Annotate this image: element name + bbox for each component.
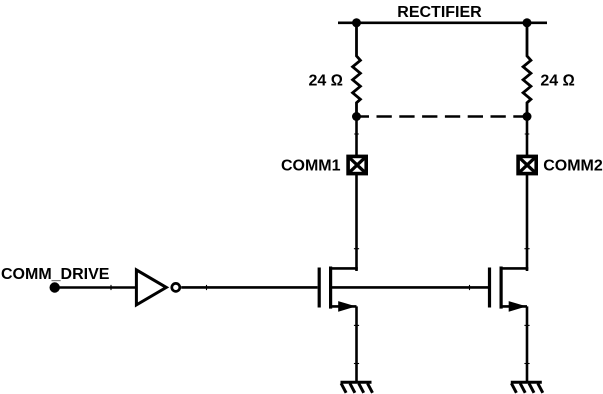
wire Q1 source down to ground <box>355 306 358 382</box>
wire dashed between resistor bottoms <box>357 115 528 118</box>
transistor Q2 NMOS right <box>490 267 528 309</box>
transistor Q1 drain stub <box>331 268 357 271</box>
transistor Q2 gate bar <box>488 268 491 308</box>
tick segment joint on Q2 drain wire <box>524 248 529 250</box>
wire COMM2 terminal down to Q2 drain <box>526 174 529 270</box>
transistor Q2 source stub <box>501 305 527 308</box>
tick segment joint on Q2 gate wire <box>469 285 471 290</box>
terminal COMM1 crossed box <box>348 156 366 173</box>
terminal COMM2 crossed box <box>518 156 536 173</box>
tick segment joint on Q2 source wire lower <box>524 363 529 365</box>
tick segment joint on Q1 source wire lower <box>354 363 359 365</box>
tick segment joint on Q1 source wire upper <box>354 324 359 326</box>
transistor Q1 source stub <box>331 305 357 308</box>
junction dot left on rectifier bus <box>352 18 361 27</box>
tick segment joint on input wire <box>110 285 112 290</box>
tick segment joint on Q2 source wire upper <box>524 324 529 326</box>
tick segment joint on gate wire <box>206 285 208 290</box>
svg-text:COMM1: COMM1 <box>281 158 341 175</box>
tick segment joint on COMM1 upper wire <box>354 133 359 135</box>
wire COMM1 terminal down to Q1 drain <box>355 174 358 270</box>
tick segment joint on Q1 drain wire <box>354 248 359 250</box>
transistor Q1 gate bar <box>318 268 321 308</box>
wire Q1 channel to Q2 gate <box>331 286 488 289</box>
wire left from dot down to COMM1 terminal <box>355 117 358 157</box>
inverter U1 output bubble <box>172 283 180 291</box>
resistor R right 24 ohm <box>523 23 531 117</box>
wire top rectifier bus <box>338 21 547 24</box>
svg-text:24 Ω: 24 Ω <box>540 73 575 90</box>
transistor Q2 drain stub <box>501 268 527 271</box>
transistor Q2 source arrow <box>509 301 527 312</box>
wire COMM_DRIVE to inverter input <box>55 286 135 289</box>
resistor R left 24 ohm <box>353 23 361 117</box>
junction dot left below resistor <box>352 112 361 121</box>
junction dot right below resistor <box>523 112 532 121</box>
svg-text:RECTIFIER: RECTIFIER <box>397 4 482 21</box>
svg-text:24 Ω: 24 Ω <box>308 73 343 90</box>
svg-text:COMM_DRIVE: COMM_DRIVE <box>1 266 110 283</box>
transistor Q1 source arrow <box>338 301 356 312</box>
svg-text:COMM2: COMM2 <box>543 158 603 175</box>
tick segment joint on COMM2 upper wire <box>525 133 530 135</box>
inverter U1 triangle <box>136 270 166 305</box>
wire inverter output to Q1 gate <box>181 286 317 289</box>
ground symbol right <box>511 382 543 393</box>
transistor Q2 channel bar <box>500 267 503 309</box>
wire Q2 source down to ground <box>526 306 529 382</box>
transistor Q1 NMOS left <box>319 267 356 309</box>
transistor Q1 channel bar <box>329 267 332 309</box>
ground symbol left <box>341 382 373 393</box>
terminal dot COMM_DRIVE <box>50 282 60 292</box>
junction dot right on rectifier bus <box>523 18 532 27</box>
wire right from dot down to COMM2 terminal <box>526 117 529 157</box>
